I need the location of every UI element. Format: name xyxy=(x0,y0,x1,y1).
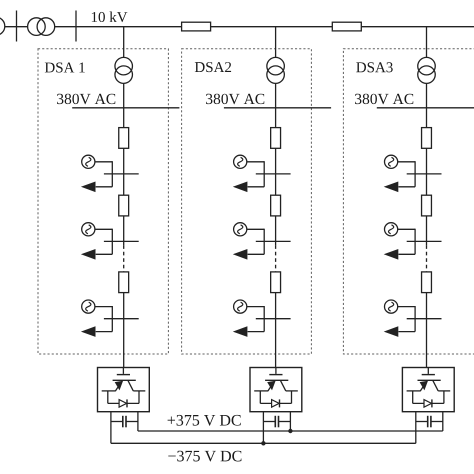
AC motor M31 (circle with sine) xyxy=(385,155,398,168)
load arrow A21 xyxy=(233,182,248,193)
DSA 1 dashed boundary xyxy=(38,49,168,354)
wire U2 positive leg xyxy=(289,412,291,431)
breaker crossbar (DSA1 branch 2) xyxy=(104,240,139,242)
wire continuation (dashed, DSA2) xyxy=(275,245,277,272)
wire motor tap (DSA2 branch 3) xyxy=(247,306,264,332)
wire continuation (dashed, DSA3) xyxy=(426,245,428,272)
IGBT Q2 channel bar xyxy=(265,379,288,381)
transformer T2 (10kV/380V, two overlapping circles) xyxy=(267,57,285,83)
fuse F23 xyxy=(271,272,281,293)
wire U1 positive leg xyxy=(137,412,139,431)
label 380V AC (DSA1) xyxy=(57,94,115,105)
wire emitter rail U2 xyxy=(254,390,268,392)
wire feeder segment (DSA3 middle) xyxy=(426,216,428,245)
wire collector rail U1 xyxy=(133,390,145,392)
wire collector rail U2 xyxy=(286,390,298,392)
label DSA 1 xyxy=(45,62,85,72)
fuse F12 xyxy=(119,195,129,216)
IGBT Q3 gate stub xyxy=(427,368,429,374)
wire motor tap (DSA2 branch 1) xyxy=(247,161,264,187)
load arrow A12 xyxy=(81,249,96,260)
freewheel diode D3 xyxy=(424,399,432,407)
junction dot (U2 positive leg on +375 bus) xyxy=(288,429,292,433)
wire feeder segment (DSA2 middle) xyxy=(275,216,277,245)
wire diode rail U2 xyxy=(260,402,291,404)
wire 380V AC busbar (DSA2) xyxy=(224,107,331,109)
wire feeder segment (DSA1 upper) xyxy=(123,148,125,195)
AC motor M13 (circle with sine) xyxy=(82,300,95,313)
IGBT Q2 gate bar xyxy=(269,374,282,376)
load arrow A32 xyxy=(384,249,399,260)
label +375 V DC xyxy=(168,415,241,426)
AC motor M23 (circle with sine) xyxy=(234,300,247,313)
converter U3 enclosure xyxy=(402,368,454,412)
DC-link capacitor C3 xyxy=(416,416,443,428)
wire 380V AC busbar (DSA1) xyxy=(72,107,179,109)
IGBT Q1 emitter arrow xyxy=(115,381,123,391)
label 380V AC (DSA3) xyxy=(355,94,413,105)
wire left drop U3 xyxy=(412,391,414,404)
AC motor M11 (circle with sine) xyxy=(82,155,95,168)
transformer T1 (10kV/380V, two overlapping circles) xyxy=(115,57,133,83)
load arrow A11 xyxy=(81,182,96,193)
AC motor M12 (circle with sine) xyxy=(82,223,95,236)
transformer T3 (10kV/380V, two overlapping circles) xyxy=(418,57,436,83)
wire collector rail U3 xyxy=(438,390,450,392)
wire T1 secondary down-feed xyxy=(123,83,125,127)
wire U3 positive leg xyxy=(442,412,444,431)
wire feeder segment (DSA1 middle) xyxy=(123,216,125,245)
wire motor tap (DSA1 branch 1) xyxy=(95,161,112,187)
IGBT Q1 gate bar xyxy=(117,374,130,376)
wire feeder segment (DSA2 upper) xyxy=(275,148,277,195)
DC-link capacitor C1 xyxy=(111,416,138,428)
wire -375 V DC bus xyxy=(111,442,416,444)
label 10 kV xyxy=(92,11,128,22)
wire motor tap (DSA3 branch 1) xyxy=(398,161,415,187)
wire feeder segment (DSA1 lower) xyxy=(123,293,125,368)
wire bus drop to T3 xyxy=(426,27,428,58)
wire bus drop to T2 xyxy=(275,27,277,58)
IGBT Q1 gate stub xyxy=(122,368,124,374)
wire right drop U2 xyxy=(291,391,293,404)
load arrow A23 xyxy=(233,326,248,337)
breaker crossbar (DSA3 branch 3) xyxy=(407,318,442,320)
fuse F13 xyxy=(119,272,129,293)
IGBT Q2 emitter arrow xyxy=(267,381,275,391)
converter U2 enclosure xyxy=(250,368,302,412)
label DSA2 xyxy=(195,62,231,72)
fuse F31 xyxy=(422,128,432,149)
wire left drop U1 xyxy=(107,391,109,404)
IGBT Q2 gate stub xyxy=(275,368,277,374)
IGBT Q3 collector lead xyxy=(433,381,438,391)
load arrow A33 xyxy=(384,326,399,337)
wire feeder segment (DSA3 upper) xyxy=(426,148,428,195)
wire T3 secondary down-feed xyxy=(426,83,428,127)
label 380V AC (DSA2) xyxy=(206,94,264,105)
IGBT Q1 collector lead xyxy=(128,381,133,391)
wire feeder segment (DSA3 lower) xyxy=(426,293,428,368)
AC motor M22 (circle with sine) xyxy=(234,223,247,236)
wire 10 kV bus xyxy=(5,26,474,28)
load arrow A31 xyxy=(384,182,399,193)
fuse F21 xyxy=(271,128,281,149)
wire continuation (dashed, DSA1) xyxy=(123,245,125,272)
AC motor M21 (circle with sine) xyxy=(234,155,247,168)
DSA 2 dashed boundary xyxy=(182,49,312,354)
fuse F33 xyxy=(422,272,432,293)
wire right drop U1 xyxy=(138,391,140,404)
breaker crossbar (DSA2 branch 3) xyxy=(256,318,291,320)
wire emitter rail U1 xyxy=(102,390,116,392)
wire motor tap (DSA2 branch 2) xyxy=(247,229,264,255)
bus tick / connection bar 2 xyxy=(75,11,77,42)
fuse F22 xyxy=(271,195,281,216)
wire +375 V DC bus xyxy=(138,430,443,432)
load arrow A22 xyxy=(233,249,248,260)
breaker crossbar (DSA2 branch 1) xyxy=(256,173,291,175)
IGBT Q3 gate bar xyxy=(422,374,435,376)
wire feeder segment (DSA2 lower) xyxy=(275,293,277,368)
breaker crossbar (DSA3 branch 1) xyxy=(407,173,442,175)
IGBT Q1 channel bar xyxy=(113,379,136,381)
wire motor tap (DSA1 branch 2) xyxy=(95,229,112,255)
breaker crossbar (DSA1 branch 3) xyxy=(104,318,139,320)
breaker crossbar (DSA2 branch 2) xyxy=(256,240,291,242)
fuse F11 xyxy=(119,128,129,149)
wire motor tap (DSA3 branch 3) xyxy=(398,306,415,332)
wire 380V AC busbar (DSA3) xyxy=(377,107,474,109)
bus coupler fuse F-a xyxy=(182,22,211,31)
wire left drop U2 xyxy=(259,391,261,404)
AC motor M33 (circle with sine) xyxy=(385,300,398,313)
transformer T0 (two overlapping circles) xyxy=(28,18,55,36)
bus coupler fuse F-b xyxy=(332,22,361,31)
wire diode rail U1 xyxy=(108,402,139,404)
wire bus drop to T1 xyxy=(123,27,125,58)
freewheel diode D1 xyxy=(119,399,127,407)
IGBT Q3 channel bar xyxy=(418,379,441,381)
wire right drop U3 xyxy=(443,391,445,404)
wire U3 negative leg xyxy=(415,412,417,444)
load arrow A13 xyxy=(81,326,96,337)
breaker crossbar (DSA3 branch 2) xyxy=(407,240,442,242)
generator G (partially off-canvas at left) xyxy=(0,17,5,35)
DSA 3 dashed boundary (right edge off-canvas) xyxy=(343,49,474,354)
wire U2 negative leg xyxy=(262,412,264,444)
wire motor tap (DSA3 branch 2) xyxy=(398,229,415,255)
wire emitter rail U3 xyxy=(407,390,421,392)
AC motor M32 (circle with sine) xyxy=(385,223,398,236)
bus tick / connection bar 1 xyxy=(16,11,18,42)
IGBT Q2 collector lead xyxy=(281,381,286,391)
junction dot (U2 negative leg on -375 bus) xyxy=(261,441,265,445)
DC-link capacitor C2 xyxy=(263,416,290,428)
fuse F32 xyxy=(422,195,432,216)
IGBT Q3 emitter arrow xyxy=(420,381,428,391)
wire T2 secondary down-feed xyxy=(275,83,277,127)
wire motor tap (DSA1 branch 3) xyxy=(95,306,112,332)
converter U1 enclosure xyxy=(98,368,150,412)
wire diode rail U3 xyxy=(413,402,444,404)
freewheel diode D2 xyxy=(272,399,280,407)
wire U1 negative leg xyxy=(110,412,112,444)
label DSA3 xyxy=(356,62,392,72)
label -375 V DC xyxy=(168,451,241,462)
breaker crossbar (DSA1 branch 1) xyxy=(104,173,139,175)
